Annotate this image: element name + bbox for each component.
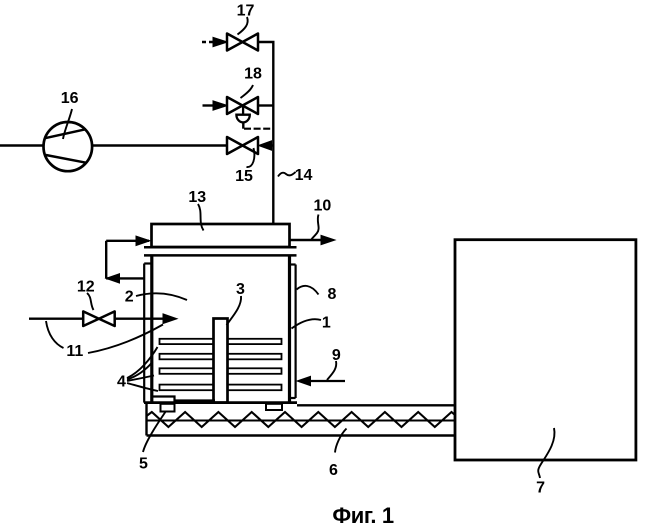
leader for 4 to tray 4 bbox=[127, 383, 158, 391]
wire: inlet to valve 18 bbox=[203, 104, 216, 106]
leader for 13 bbox=[198, 204, 204, 231]
conveyor left wall bbox=[145, 403, 147, 436]
jacket right outer wall bbox=[295, 265, 297, 399]
leader for 6 bbox=[335, 429, 347, 453]
svg-text:8: 8 bbox=[327, 286, 336, 303]
wire: line 14 vertical bbox=[272, 42, 274, 224]
flange line lower (vessel rim) bbox=[144, 254, 297, 257]
valve V15 bbox=[227, 137, 258, 154]
arrow 9 line bbox=[309, 380, 345, 382]
valve V18 bbox=[227, 97, 258, 114]
jacket left top stub bbox=[144, 262, 152, 264]
tray bar 4c bbox=[160, 368, 282, 374]
arrow on bottom run pointing left bbox=[106, 274, 120, 283]
conveyor shaft midline bbox=[147, 420, 456, 422]
actuator stem from valve bbox=[242, 107, 244, 115]
svg-text:3: 3 bbox=[236, 281, 245, 298]
blower 16 upper vane bbox=[44, 129, 86, 138]
leader for 4 to tray 2 bbox=[127, 362, 153, 380]
wire: actuator stem down bbox=[242, 122, 244, 128]
arrow into lid bbox=[136, 236, 150, 245]
svg-text:Фиг. 1: Фиг. 1 bbox=[332, 503, 393, 528]
tray bar 4a bbox=[160, 339, 282, 344]
leader for 1 bbox=[292, 319, 322, 328]
svg-text:18: 18 bbox=[244, 66, 262, 83]
wire: recirculation bottom run bbox=[106, 277, 144, 279]
wire: valve 17 outlet to line 14 bbox=[258, 41, 275, 43]
leader for 2 bbox=[136, 293, 187, 300]
jacket left outer wall 8 bbox=[143, 264, 145, 403]
svg-text:2: 2 bbox=[125, 289, 134, 306]
svg-text:16: 16 bbox=[61, 90, 79, 107]
actuator bowl of valve 18 bbox=[236, 115, 249, 123]
blower 16 circle bbox=[44, 122, 93, 171]
wire: outlet line 10 from lid bbox=[290, 239, 322, 241]
leader for 16 bbox=[63, 109, 72, 139]
arrow into valve 18 bbox=[213, 101, 228, 110]
leader for 12 bbox=[87, 293, 94, 310]
leader for 9 bbox=[327, 361, 336, 380]
svg-text:15: 15 bbox=[235, 168, 253, 185]
leader for 15 bbox=[247, 148, 255, 167]
wire: dashed control line to line 14 bbox=[244, 128, 272, 130]
wire: feed line into vessel bbox=[115, 318, 164, 320]
box 7 bbox=[455, 240, 636, 460]
leader for 10 bbox=[312, 215, 319, 240]
svg-text:4: 4 bbox=[117, 374, 126, 391]
jacket right top stub bbox=[290, 263, 296, 265]
svg-text:6: 6 bbox=[329, 462, 338, 479]
flange line upper bbox=[144, 246, 297, 249]
vessel bottom bbox=[144, 401, 297, 404]
valve V17 bbox=[227, 34, 258, 51]
blower 16 lower vane bbox=[46, 155, 86, 163]
arrow 9 head bbox=[297, 376, 311, 385]
wire: recirculation top run into lid bbox=[106, 240, 149, 242]
svg-text:7: 7 bbox=[536, 480, 545, 497]
leader for 3 bbox=[227, 296, 242, 325]
leader for 11 left bbox=[46, 321, 64, 348]
column 3 bbox=[214, 319, 228, 403]
wire: valve 18 outlet to line 14 bbox=[258, 104, 273, 106]
svg-text:17: 17 bbox=[237, 3, 255, 20]
svg-text:14: 14 bbox=[295, 167, 313, 184]
tray bar 4b bbox=[160, 354, 282, 360]
leader for 8 bbox=[297, 286, 319, 295]
wire: feed line 11 bbox=[29, 318, 83, 320]
discharge bracket line bbox=[153, 397, 215, 401]
vessel left wall bbox=[150, 255, 153, 402]
leader for 14 bbox=[278, 172, 296, 177]
svg-text:1: 1 bbox=[322, 315, 331, 332]
arrow into valve 17 bbox=[213, 37, 228, 46]
wire: line from blower to valve 15 bbox=[92, 144, 227, 146]
wire: long suction line at y=145.5 left of blower bbox=[0, 144, 44, 146]
tray bar 4d bbox=[160, 385, 282, 391]
svg-text:5: 5 bbox=[139, 456, 148, 473]
wire: recirculation riser bbox=[105, 241, 107, 279]
leader for 18 bbox=[241, 85, 254, 98]
valve V12 bbox=[83, 311, 115, 326]
conveyor top line bbox=[297, 404, 455, 406]
leader for 17 bbox=[238, 17, 248, 35]
discharge box 5 bbox=[161, 404, 175, 412]
wire: line 14 to arrow 15 bbox=[270, 144, 273, 146]
screw 6 zigzag bbox=[147, 412, 456, 427]
leader for 4 to tray 3 bbox=[127, 376, 154, 382]
arrow into valve 15 from line 14 bbox=[259, 141, 272, 150]
jacket right bottom stub bbox=[290, 397, 296, 399]
svg-text:12: 12 bbox=[77, 279, 95, 296]
leader for 7 bbox=[538, 428, 554, 478]
right foot bbox=[266, 404, 282, 410]
wire: dashed inlet to valve 17 bbox=[202, 41, 213, 43]
vessel right wall 1 bbox=[288, 255, 291, 402]
leader for 4 to tray 1 bbox=[127, 347, 158, 378]
svg-text:11: 11 bbox=[66, 343, 83, 360]
svg-text:10: 10 bbox=[314, 198, 332, 215]
leader for 11 right bbox=[88, 325, 163, 354]
arrow feed into vessel bbox=[163, 314, 177, 324]
leader for 5 bbox=[143, 411, 166, 452]
arrow 10 bbox=[321, 235, 335, 244]
conveyor bottom line bbox=[147, 434, 456, 436]
svg-text:13: 13 bbox=[188, 189, 206, 206]
lid 13 of vessel bbox=[152, 224, 290, 247]
